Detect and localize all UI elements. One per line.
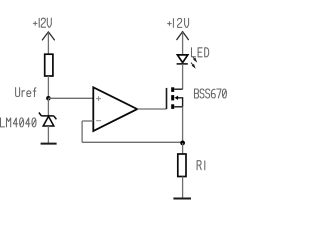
ground (left) (41, 143, 57, 145)
gate vertical line (166, 88, 168, 109)
drain stub (174, 88, 182, 90)
wire node Uref down to zener cathode (47, 98, 49, 116)
LED light emission arrows (191, 56, 196, 67)
ground (right) (173, 198, 191, 200)
source stub (174, 106, 182, 108)
label BSS670 (195, 89, 227, 98)
wire LED cathode to MOSFET drain (182, 64, 184, 89)
label LM4040 (1, 118, 37, 127)
wire +12V to upper resistor (left) (47, 32, 49, 54)
channel bar middle (bulk) (171, 95, 174, 100)
wire MOSFET source to node R1 (182, 107, 184, 143)
LED diode symbol (177, 55, 188, 64)
bulk arrow pointing to channel (175, 96, 179, 100)
wire op-amp - input (horizontal segment) (82, 120, 93, 122)
op-amp U1 triangle (93, 87, 137, 131)
label LED (192, 48, 209, 57)
label Uref (16, 88, 36, 97)
bulk stub to source (178, 98, 183, 107)
op-amp + input marking (96, 96, 101, 101)
wire op-amp output to MOSFET gate (137, 108, 166, 110)
node Uref junction dot (46, 96, 51, 101)
wire +12V to LED anode (182, 32, 184, 55)
wire node to resistor R1 (182, 143, 184, 154)
channel bar bottom (source) (171, 104, 174, 109)
junction node source/feedback/R1 (180, 141, 185, 146)
label +12V (right supply) (168, 18, 189, 27)
label R1 (197, 161, 205, 170)
power +12V arrow symbol (left) (42, 32, 54, 40)
channel bar top (drain) (171, 87, 174, 92)
power +12V arrow symbol (right) (177, 32, 189, 40)
resistor (reference divider, upper left, no designator) (45, 54, 53, 76)
wire feedback vertical segment (81, 121, 83, 142)
resistor R1 (178, 154, 186, 177)
wire zener anode to ground (47, 126, 49, 144)
op-amp - input marking (96, 120, 101, 122)
zener diode LM4040 (shunt reference) (39, 113, 57, 127)
wire R1 to ground (182, 177, 184, 199)
label +12V (left supply) (33, 18, 51, 27)
wire node Uref to op-amp + input (48, 97, 93, 99)
wire feedback bottom horizontal to source node (82, 141, 183, 143)
transistor BSS670 N-channel MOSFET (167, 87, 183, 109)
wire resistor to node Uref (47, 76, 49, 98)
